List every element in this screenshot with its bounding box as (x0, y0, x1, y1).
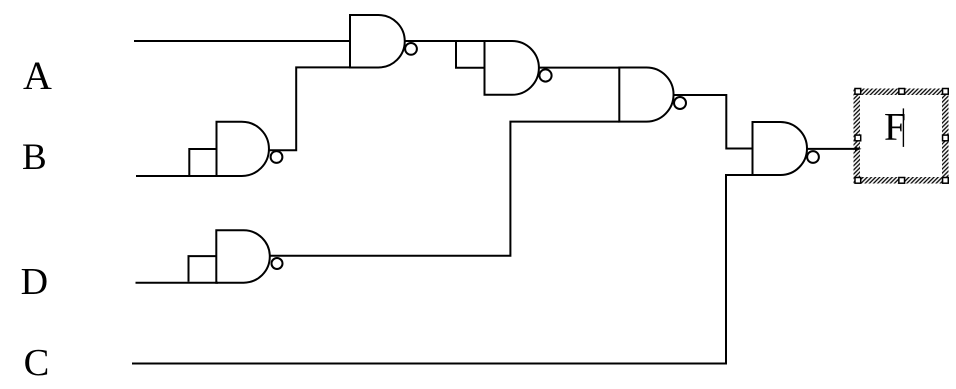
wire input C horizontal run (132, 363, 727, 365)
U1 input tie loop wire (189, 149, 216, 175)
svg-text:D: D (21, 261, 48, 303)
nand U2 (D inverter) body (216, 230, 270, 282)
U1 output bubble (271, 151, 283, 163)
wire U4 output to U5 upper input (540, 67, 620, 69)
wire U6 output to F box (807, 148, 857, 150)
nand U1 (B inverter) body (217, 122, 269, 176)
U4 output bubble (539, 69, 551, 81)
U2 output bubble (272, 258, 283, 269)
svg-text:C: C (24, 342, 50, 384)
svg-text:B: B (22, 137, 47, 178)
U4 input tie loop wire (456, 41, 485, 68)
U6 output bubble (807, 151, 819, 163)
U5 output bubble (674, 97, 686, 109)
wire U3 output to U4 inputs (406, 40, 485, 42)
wire U2 output to U5 lower input (270, 122, 620, 256)
arrowhead at F box (855, 147, 862, 152)
nand U3 body (350, 15, 405, 68)
selection handle bottom-middle (899, 178, 905, 184)
selection handle bottom-right (943, 178, 949, 184)
wire U1 output to U3 lower input (268, 67, 351, 150)
selection handle middle-left (855, 135, 861, 141)
wire input B to U1 (136, 175, 218, 177)
wire U5 output to U6 upper input (673, 95, 753, 149)
selection handle bottom-left (855, 178, 861, 184)
selection handle top-middle (899, 89, 905, 95)
nand U6 (final) body (753, 122, 808, 175)
selection handle middle-right (943, 135, 949, 141)
wire input C riser to U6 lower input (726, 175, 753, 365)
selection handle top-left (855, 89, 861, 95)
text caret in F box (902, 108, 904, 146)
svg-text:F: F (884, 105, 906, 149)
nand U5 body (619, 68, 673, 122)
F text box selection hatched frame (854, 89, 949, 184)
wire input D to U2 (136, 282, 219, 284)
svg-text:A: A (23, 53, 52, 98)
selection handle top-right (943, 89, 949, 95)
nand U4 body (485, 41, 539, 95)
wire input A to U3 (134, 40, 351, 42)
U2 input tie loop wire (189, 256, 217, 282)
U3 output bubble (405, 43, 417, 55)
